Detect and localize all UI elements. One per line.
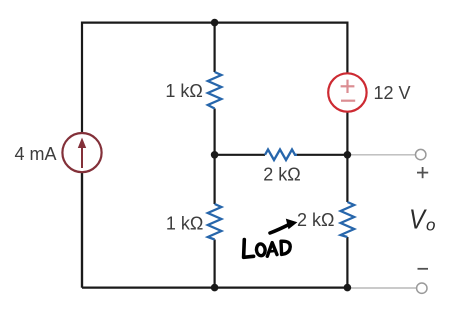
annotation LOAD letter D <box>281 241 290 254</box>
svg-text:12 V: 12 V <box>374 83 411 103</box>
node D bottom left <box>211 284 219 292</box>
resistor R2 1 kOhm bottom <box>208 204 222 240</box>
voltage source V1 12 V <box>328 73 366 111</box>
node C middle right <box>344 151 352 159</box>
wire right branch <box>346 112 348 202</box>
wire bottom <box>82 287 347 289</box>
node B middle left <box>211 151 219 159</box>
wire gray to bottom terminal <box>347 287 416 289</box>
node A top <box>211 19 219 27</box>
terminal bottom <box>417 283 427 293</box>
svg-text:1 kΩ: 1 kΩ <box>166 214 203 234</box>
wire left vertical lower <box>81 172 83 287</box>
annotation arrow to load <box>270 219 297 233</box>
wire middle horizontal <box>215 154 265 156</box>
terminal top <box>416 149 426 159</box>
svg-text:1 kΩ: 1 kΩ <box>165 81 202 101</box>
annotation LOAD letter L <box>244 240 254 258</box>
svg-text:V: V <box>409 203 427 234</box>
current source I1 4 mA <box>62 133 101 172</box>
resistor R4 2 kOhm right (load) <box>341 202 355 237</box>
wire middle branch <box>214 23 216 72</box>
annotation LOAD letter A <box>267 243 277 257</box>
wire top <box>82 23 347 288</box>
wire gray to top terminal <box>347 154 415 156</box>
svg-text:2 kΩ: 2 kΩ <box>263 165 300 185</box>
annotation LOAD letter O <box>256 243 266 256</box>
label minus terminal <box>418 268 429 270</box>
resistor R1 1 kOhm top <box>208 72 222 109</box>
svg-text:4 mA: 4 mA <box>14 144 56 164</box>
svg-text:o: o <box>426 216 435 235</box>
node E bottom right <box>344 284 352 292</box>
label plus terminal <box>417 167 428 178</box>
resistor R3 2 kOhm horizontal <box>265 150 297 161</box>
svg-text:2 kΩ: 2 kΩ <box>297 210 334 230</box>
